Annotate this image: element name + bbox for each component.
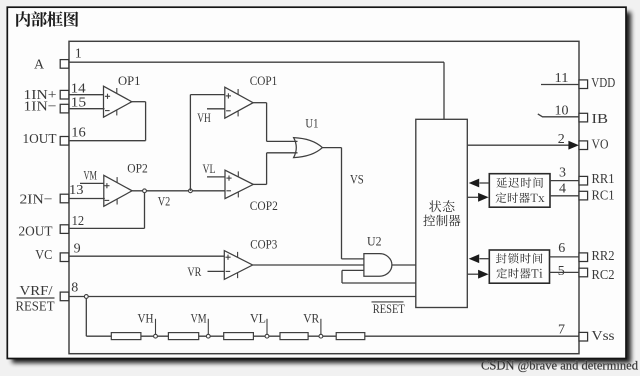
svg-text:7: 7: [558, 323, 565, 338]
svg-text:A: A: [34, 58, 45, 73]
wire Tx to RR1: [550, 180, 579, 182]
comparator COP2: [225, 170, 278, 213]
svg-text:5: 5: [558, 264, 565, 279]
svg-text:6: 6: [558, 241, 565, 256]
wire 1IN- to OP1 inverting input: [69, 108, 105, 110]
wire 2IN- to OP2 inverting input: [69, 198, 105, 200]
svg-text:2IN−: 2IN−: [20, 193, 53, 208]
wire IB stub: [538, 114, 579, 117]
pin RR1 (3): [559, 166, 615, 188]
pin VRF/RESET (8): [20, 280, 79, 300]
svg-text:COP1: COP1: [250, 73, 277, 88]
state controller box 状态控制器: [416, 119, 468, 307]
wire VL stub to COP2 non-inverting input: [207, 176, 225, 178]
svg-text:IB: IB: [592, 112, 609, 127]
pin 1OUT (16): [23, 126, 86, 147]
svg-text:VDD: VDD: [591, 76, 615, 91]
wire controller to Ti (arrow right): [467, 270, 488, 279]
svg-text:CSDN @brave and determined: CSDN @brave and determined: [481, 359, 639, 373]
svg-text:9: 9: [74, 242, 81, 257]
wire Ti to RR2: [550, 256, 580, 258]
resistor R-bottom: [336, 333, 365, 340]
junction node at pin 8 / divider branch: [84, 295, 88, 337]
pin RC2 (5): [558, 264, 615, 283]
svg-text:COP3: COP3: [250, 236, 277, 251]
svg-text:RR2: RR2: [592, 249, 615, 264]
op-amp OP1: [104, 73, 141, 117]
svg-text:V2: V2: [158, 193, 171, 208]
OR gate U1: [294, 115, 323, 157]
wire VM stub to OP2 non-inverting input: [80, 182, 104, 184]
wire VC to COP3 non-inverting input: [69, 255, 224, 257]
pin 1IN+ (14): [24, 82, 86, 104]
wire controller to Tx (arrow right): [467, 193, 488, 202]
comparator COP1: [225, 73, 277, 118]
svg-text:8: 8: [71, 280, 78, 295]
svg-text:VC: VC: [35, 248, 52, 263]
wire Ti to controller (arrow left): [469, 254, 490, 263]
title 内部框图: [16, 11, 78, 27]
pin 2IN- (13): [20, 183, 84, 208]
wire U1 output / net VS down to U2: [322, 148, 364, 259]
svg-text:16: 16: [71, 126, 86, 141]
wire VH stub to COP1 inverting input: [207, 108, 225, 110]
svg-text:RC2: RC2: [592, 268, 615, 283]
junction node V2: [189, 189, 193, 193]
svg-text:VRF/: VRF/: [20, 284, 53, 299]
wire OP2 output / net V2: [132, 190, 225, 192]
wire net A from pin 1 to node over state controller: [69, 62, 444, 119]
svg-text:COP2: COP2: [250, 198, 278, 213]
op-amp OP2: [104, 160, 148, 206]
svg-text:4: 4: [559, 182, 566, 197]
wire VR stub to COP3 inverting input: [208, 270, 225, 272]
svg-text:1OUT: 1OUT: [23, 132, 57, 147]
tap node VM: [191, 312, 211, 339]
svg-text:1IN−: 1IN−: [24, 100, 57, 115]
junction node on V2 at 2OUT branch: [143, 189, 147, 193]
pin IB (10): [555, 103, 609, 127]
svg-text:VL: VL: [203, 161, 216, 176]
svg-text:VM: VM: [84, 168, 98, 183]
resistor divider chain wire to Vss: [86, 335, 579, 337]
svg-text:U1: U1: [305, 115, 318, 130]
pin VO (2): [558, 132, 609, 152]
svg-text:VH: VH: [138, 312, 154, 326]
svg-text:12: 12: [72, 214, 85, 229]
AND gate U2: [364, 233, 392, 276]
svg-text:OP2: OP2: [127, 160, 148, 175]
svg-text:VM: VM: [191, 312, 207, 326]
pin A (1): [34, 47, 82, 73]
svg-text:RR1: RR1: [592, 172, 615, 187]
wire 1IN+ to OP1 non-inverting input: [69, 94, 104, 96]
pin Vss (7): [558, 323, 615, 344]
wire RESET net from pin 8 to state controller: [69, 296, 416, 298]
delay timer box 延迟时间定时器Tx: [489, 174, 550, 208]
svg-text:VS: VS: [350, 172, 364, 187]
pin RR2 (6): [558, 241, 614, 264]
lockout timer box 封锁时间定时器Ti: [489, 250, 549, 283]
svg-text:10: 10: [555, 103, 569, 118]
svg-text:1: 1: [75, 47, 82, 62]
comparator COP3: [224, 236, 277, 279]
resistor R-VR: [280, 333, 308, 340]
wire VDD stub: [541, 84, 579, 86]
pin 2OUT (12): [19, 214, 85, 239]
pin VC (9): [35, 242, 80, 264]
wire U2 output to state controller: [392, 264, 416, 266]
svg-text:U2: U2: [367, 233, 382, 248]
resistor R-VH: [111, 333, 141, 340]
tap node VR: [303, 312, 323, 339]
resistor R-VM: [168, 333, 198, 340]
svg-text:OP1: OP1: [118, 73, 141, 88]
tap node VL: [250, 312, 269, 339]
wire COP2 output to U1 bottom input: [253, 153, 297, 185]
pin 1IN- (15): [24, 95, 87, 114]
wire Tx to RC1: [550, 195, 579, 197]
wire RESET feedback from controller to U2 bottom input: [342, 270, 416, 283]
svg-text:VH: VH: [197, 110, 211, 125]
svg-text:13: 13: [69, 183, 84, 198]
svg-text:VR: VR: [303, 312, 320, 326]
wire VO from controller with arrow: [467, 141, 579, 150]
label RESET (overlined, pin 8): [16, 298, 55, 314]
svg-text:RESET: RESET: [373, 301, 405, 316]
wire Tx to controller (arrow left): [469, 179, 490, 188]
wire COP3 output to U2 middle input: [253, 264, 364, 266]
wire 1OUT from OP1 output: [69, 102, 146, 141]
wire Ti to RC2: [550, 271, 580, 273]
IC boundary box: [69, 41, 579, 353]
pin VDD (11): [555, 71, 616, 91]
tap node VH: [138, 312, 158, 339]
svg-text:3: 3: [559, 166, 566, 181]
label RESET (overlined, controller side): [372, 301, 405, 316]
wire OP1 output: [132, 101, 146, 103]
svg-text:VL: VL: [250, 312, 266, 326]
svg-text:RESET: RESET: [16, 299, 55, 314]
pin RC1 (4): [559, 182, 615, 204]
svg-text:Vss: Vss: [592, 329, 615, 344]
wire COP1 output to U1 top input: [253, 103, 297, 142]
wire V2 up to COP1 non-inverting input: [190, 95, 224, 191]
svg-text:VR: VR: [187, 264, 201, 279]
svg-text:2OUT: 2OUT: [19, 224, 53, 239]
wire 2OUT to OP2 output: [69, 191, 145, 229]
svg-text:RC1: RC1: [592, 188, 615, 203]
svg-text:VO: VO: [592, 137, 609, 152]
resistor R-VL: [224, 333, 254, 340]
